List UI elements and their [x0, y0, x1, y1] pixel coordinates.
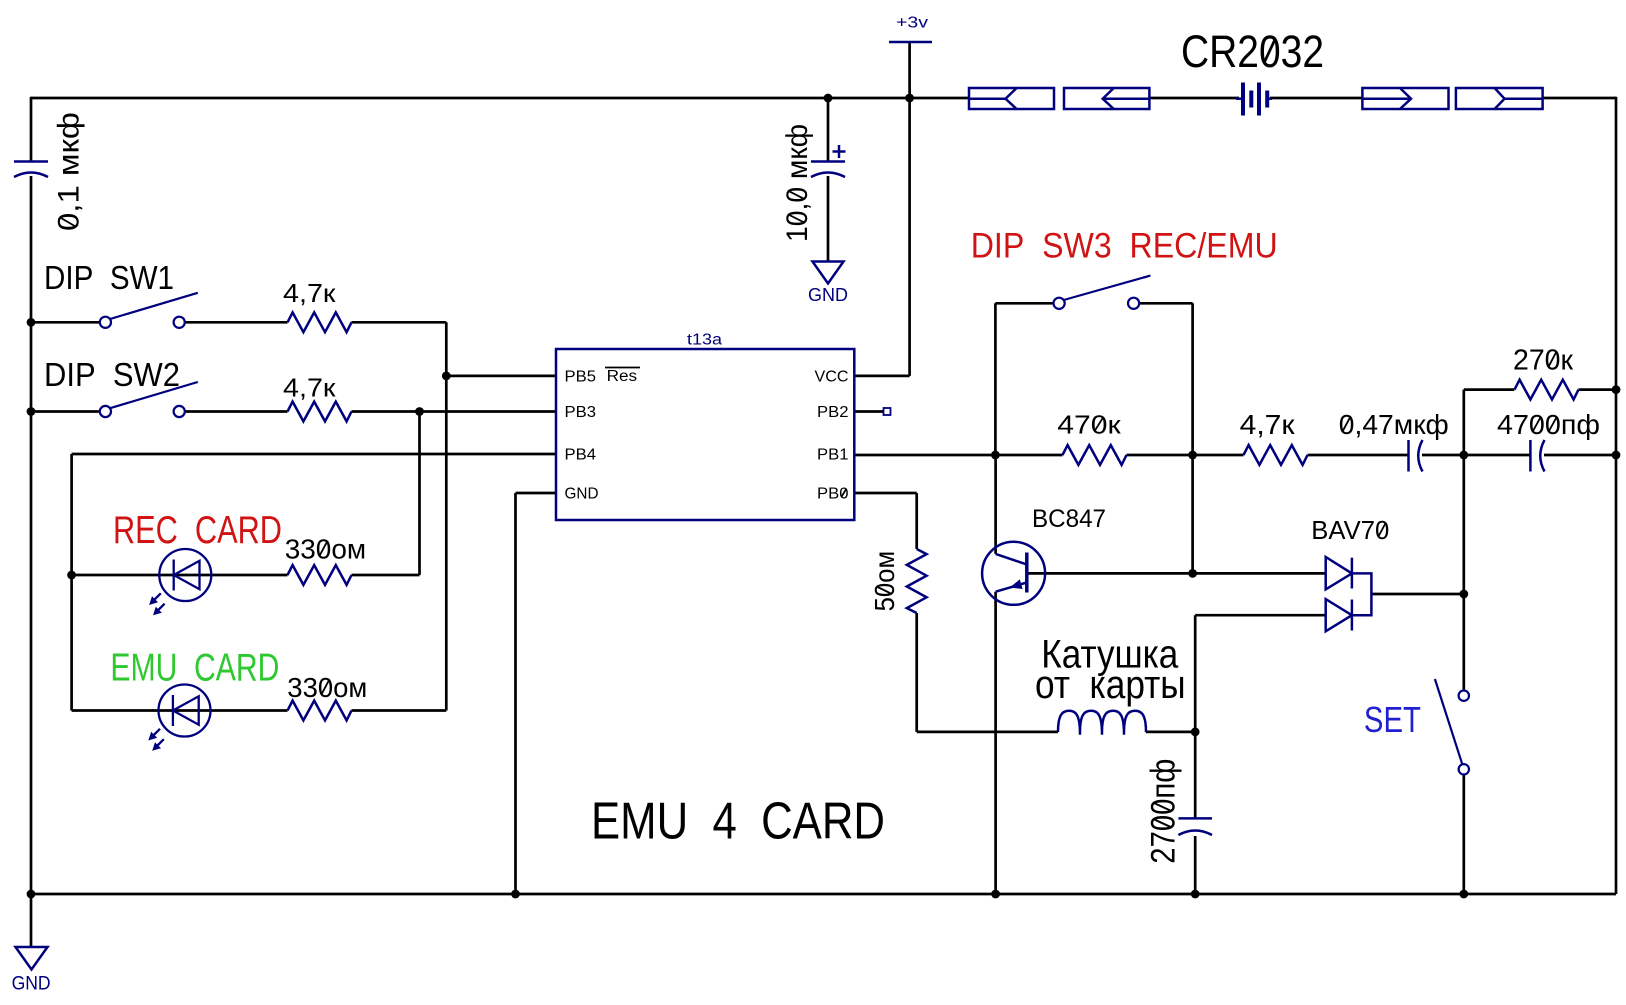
resistor 4,7к (SW1 row)	[288, 312, 352, 332]
wire right border vertical	[1615, 97, 1618, 894]
slashed zero in label 270к char 2	[1549, 351, 1557, 367]
wire PB5 row	[446, 375, 556, 378]
node REC row left	[67, 571, 76, 580]
slashed zero in label PB0 char 2	[841, 489, 846, 497]
wire transistor base to BAV70 diode1	[1027, 572, 1326, 575]
svg-text:4700пф: 4700пф	[1497, 409, 1600, 440]
capacitor 10,0 мкф plus sign	[833, 150, 846, 153]
switch DIP SW2	[100, 406, 111, 417]
wire 50om resistor down to coil row	[915, 613, 918, 732]
card contact box 2	[1064, 88, 1149, 109]
resistor 4,7к (SW2 row)	[288, 402, 352, 422]
wire REC row	[72, 574, 288, 577]
svg-text:2700пф: 2700пф	[1145, 759, 1183, 864]
svg-text:PB3: PB3	[565, 404, 597, 421]
switch SET	[1459, 691, 1469, 701]
BATTERY	[969, 88, 1543, 109]
wire VCC pin row	[854, 375, 909, 378]
svg-text:SET: SET	[1364, 699, 1421, 740]
svg-text:GND: GND	[808, 284, 848, 305]
transistor Q1 BC847	[982, 542, 1045, 605]
svg-text:DIP SW2: DIP SW2	[44, 356, 180, 393]
wire vertical SW1 corner down to EMU row	[445, 322, 448, 710]
slashed zero in label 50ом char 1	[876, 586, 891, 593]
slashed zero in label 470к char 2	[1095, 417, 1104, 431]
LED REC CARD	[149, 549, 211, 615]
wire BAV70 diode2 anode row	[1195, 614, 1326, 617]
node PB5 / SW1	[442, 372, 451, 381]
resistor 330ом (REC row)	[288, 565, 352, 585]
RESISTORS	[288, 312, 1579, 734]
wire PB1 row 470k to 4,7k	[1127, 454, 1244, 457]
svg-text:BAV70: BAV70	[1311, 515, 1389, 545]
svg-text:PB5: PB5	[565, 369, 597, 386]
wire battery left link	[1149, 97, 1239, 100]
switch DIP SW1	[100, 317, 111, 328]
svg-text:VCC: VCC	[815, 369, 849, 386]
node bottom rail / SET	[1459, 890, 1468, 899]
svg-text:PB2: PB2	[817, 404, 849, 421]
ground symbol under 10uF	[813, 262, 844, 284]
PB2 open square terminal	[884, 408, 891, 415]
svg-text:EMU CARD: EMU CARD	[110, 646, 279, 689]
slashed zero in label 0,1 мкф char 0	[60, 217, 76, 227]
wire 270k branch vertical	[1462, 390, 1465, 455]
node bottom rail / IC GND	[511, 890, 520, 899]
LED EMU CARD	[148, 685, 210, 751]
node bottom rail / emitter	[991, 890, 1000, 899]
slashed zero in label 330ом char 2	[322, 679, 330, 694]
node 270k / right border	[1612, 385, 1621, 394]
svg-text:PB4: PB4	[565, 447, 597, 464]
node PB1 / 270k branch	[1459, 451, 1468, 460]
capacitor 10,0 мкф plates	[811, 160, 845, 163]
wire top rail right of battery to corner	[1543, 97, 1616, 100]
diode pair BAV70	[1326, 557, 1372, 631]
capacitor 0,1 мкф plates	[14, 160, 48, 163]
resistor 470к	[1063, 445, 1127, 465]
capacitor 0,47мкф plates	[1407, 440, 1410, 472]
battery CR2032 cells	[1236, 83, 1272, 116]
wire SW2 resistor to PB3 pin	[352, 410, 557, 413]
node BAV70 tap / SET vertical	[1459, 590, 1468, 599]
slashed zero in label 330ом char 2	[320, 541, 328, 556]
svg-text:4,7к: 4,7к	[283, 372, 336, 402]
slashed zero in label BAV70 char 4	[1378, 523, 1386, 537]
slashed zero in label 10,0 мкф char 3	[788, 191, 804, 199]
wire left border above C1	[30, 97, 33, 161]
wire SW2 to resistor	[185, 410, 288, 413]
POWER	[16, 42, 933, 970]
svg-text:DIP SW1: DIP SW1	[44, 259, 174, 296]
svg-text:+3v: +3v	[896, 15, 928, 32]
wire bottom ground rail	[31, 893, 1616, 896]
wire PB1 row from IC	[854, 454, 1062, 457]
wire vertical PB4 down through REC to EMU row	[70, 454, 73, 711]
slashed zero in label 2700пф char 2	[1153, 819, 1171, 828]
card contact box 3	[1362, 88, 1448, 109]
wire top net: left segment of top rail	[31, 97, 969, 100]
wire SW3 top right segment	[1139, 302, 1193, 305]
svg-text:CR2032: CR2032	[1181, 26, 1324, 77]
wire +3v vertical	[908, 42, 911, 376]
wire SET branch vertical upper	[1462, 455, 1465, 691]
slashed zero in label CR2032 char 3	[1264, 39, 1275, 63]
wire GND stub bottom left	[30, 894, 33, 947]
slashed zero in label 2700пф char 3	[1153, 803, 1171, 812]
node PB3 / REC	[415, 407, 424, 416]
svg-text:4,7к: 4,7к	[1240, 409, 1296, 440]
svg-text:GND: GND	[12, 973, 51, 995]
svg-text:330ом: 330ом	[287, 672, 367, 703]
wire 4700pf to right border	[1544, 454, 1616, 457]
svg-text:470к: 470к	[1057, 409, 1121, 439]
resistor 270к	[1515, 380, 1579, 400]
wire PB2 stub	[854, 410, 883, 413]
svg-text:GND: GND	[565, 486, 599, 503]
svg-text:50ом: 50ом	[869, 551, 900, 612]
wire SW1 row left	[31, 321, 100, 324]
op-amp U1: ATtiny13a MCU box	[556, 349, 854, 520]
CAPS	[14, 145, 1545, 835]
svg-text:BC847: BC847	[1032, 505, 1106, 533]
wire EMU row	[72, 709, 288, 712]
power +3v bar	[889, 41, 932, 44]
resistor 4,7к (right)	[1244, 445, 1308, 465]
wire PB0 row	[854, 492, 916, 495]
wire coil row left	[917, 731, 1058, 734]
node base wire / SW3	[1188, 569, 1197, 578]
card contact box 4	[1456, 88, 1543, 109]
wire vertical IC GND down to bottom rail	[514, 493, 517, 894]
node 4700pf / right border	[1612, 451, 1621, 460]
switch DIP SW3	[1054, 298, 1065, 309]
node SW2 left	[27, 407, 36, 416]
slashed zero in label 10,0 мкф char 1	[788, 214, 804, 222]
ground symbol bottom left	[16, 947, 48, 970]
svg-text:330ом: 330ом	[285, 534, 366, 565]
SWITCHES	[100, 276, 1469, 775]
slashed zero in label 0,47мкф char 0	[1343, 416, 1351, 431]
capacitor 4700пф plates	[1529, 440, 1532, 472]
inductor Катушка от карты	[1058, 711, 1146, 735]
node bottom rail / 2700pf	[1191, 890, 1200, 899]
wire SW3 left vertical	[994, 303, 997, 455]
node top rail 10uF branch	[824, 94, 833, 103]
wire 10uF branch vertical bottom	[827, 176, 830, 261]
node PB1 / SW3 left	[991, 451, 1000, 460]
wire SW1 to resistor	[185, 321, 288, 324]
wire 2700pf to bottom rail	[1194, 836, 1197, 894]
node PB1 / SW3 right	[1188, 451, 1197, 460]
node coil / diode2 vertical	[1191, 728, 1200, 737]
wire coil row right	[1146, 731, 1195, 734]
wire SW1 resistor to corner	[352, 321, 447, 324]
slashed zero in label 4700пф char 2	[1533, 416, 1541, 431]
svg-text:DIP SW3 REC/EMU: DIP SW3 REC/EMU	[971, 226, 1278, 266]
wire transistor emitter vertical down to bottom rail	[994, 592, 997, 894]
wire SW2 row left	[31, 410, 100, 413]
svg-text:от карты: от карты	[1035, 663, 1186, 707]
resistor 330ом (EMU row)	[288, 701, 352, 721]
wire PB4 row	[72, 453, 556, 456]
wire PB1 row 4,7k to cap	[1308, 454, 1409, 457]
svg-text:PB1: PB1	[817, 447, 849, 464]
wire BAV70 mid tap to SET vertical	[1371, 593, 1463, 596]
slashed zero in label 4700пф char 3	[1549, 416, 1557, 431]
wire 10uF branch vertical top	[827, 98, 830, 161]
wire PB0 corner down to 50om resistor	[915, 493, 918, 549]
wire EMU resistor to corner	[352, 709, 447, 712]
wire SET branch vertical lower	[1462, 775, 1465, 895]
wire REC resistor to corner	[352, 574, 420, 577]
wire PB1 row cap to junction and 4700pf	[1422, 454, 1530, 457]
wire 270k row left	[1464, 388, 1515, 391]
wire IC GND pin to corner	[516, 492, 557, 495]
node SW1 left	[27, 318, 36, 327]
wire SW3 top left segment	[995, 302, 1053, 305]
svg-text:Res: Res	[607, 368, 638, 385]
svg-text:0,1 мкф: 0,1 мкф	[53, 112, 86, 231]
wire SW3 right vertical down to base wire	[1191, 303, 1194, 573]
resistor 50ом (vertical)	[907, 549, 927, 613]
wire transistor collector vertical	[994, 455, 997, 554]
svg-text:4,7к: 4,7к	[283, 278, 336, 308]
wire vertical diode2 down to coil junction and 2700pf	[1194, 615, 1197, 818]
wire 270k row right	[1579, 388, 1617, 391]
svg-text:10,0 мкф: 10,0 мкф	[781, 124, 814, 242]
card contact box 1	[969, 88, 1054, 109]
wire left border below C1	[30, 176, 33, 894]
wire vertical PB3 junction down to REC row	[418, 412, 421, 576]
svg-text:REC CARD: REC CARD	[113, 509, 282, 552]
svg-text:t13a: t13a	[687, 332, 722, 349]
capacitor 2700пф plates	[1178, 817, 1212, 820]
node bottom rail left corner	[27, 890, 36, 899]
svg-text:EMU 4 CARD: EMU 4 CARD	[591, 793, 885, 851]
svg-text:270к: 270к	[1513, 345, 1573, 377]
svg-text:0,47мкф: 0,47мкф	[1339, 409, 1449, 440]
wire battery right link	[1270, 97, 1362, 100]
node top rail +3v	[905, 94, 914, 103]
